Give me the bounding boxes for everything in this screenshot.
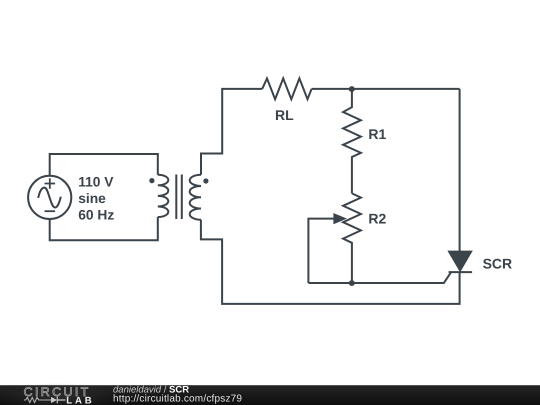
resistor RL (262, 78, 311, 99)
wire secondary top (201, 89, 262, 175)
svg-text:http://circuitlab.com/cfpsz79: http://circuitlab.com/cfpsz79 (113, 393, 242, 404)
resistor R1 (343, 89, 361, 193)
SCR thyristor (449, 251, 473, 272)
potentiometer R2 (343, 193, 361, 283)
wire primary bottom (50, 217, 158, 240)
logo diode (51, 397, 66, 403)
footer author line (113, 384, 189, 395)
svg-text:R1: R1 (368, 126, 386, 142)
svg-text:110 V: 110 V (78, 175, 114, 190)
wire top (312, 88, 460, 90)
footer bar (0, 383, 540, 405)
voltage source V1 (28, 176, 71, 219)
label V1 value: 110 V sine 60 Hz (78, 175, 114, 223)
logo resistor zigzag (24, 397, 51, 402)
phase dot secondary (203, 178, 208, 183)
logo CIRCUIT text (24, 385, 91, 399)
node junction top (349, 86, 355, 92)
phase dot primary (149, 178, 154, 183)
label R1 (368, 126, 386, 142)
svg-text:LAB: LAB (66, 396, 94, 405)
transformer T1 primary winding (158, 175, 169, 217)
svg-text:R2: R2 (368, 211, 386, 227)
transformer core (176, 175, 182, 220)
svg-text:SCR: SCR (483, 256, 513, 272)
footer url line (113, 393, 242, 404)
logo LAB text (66, 396, 94, 405)
wire gate (308, 272, 451, 283)
wire cathode and bottom return (201, 220, 460, 304)
wire primary top (50, 154, 158, 176)
label SCR (483, 256, 513, 272)
svg-text:60 Hz: 60 Hz (78, 208, 114, 223)
transformer T1 secondary winding (190, 175, 201, 220)
wire anode (459, 89, 461, 252)
label RL (275, 107, 294, 123)
svg-text:RL: RL (275, 107, 294, 123)
svg-text:sine: sine (78, 191, 106, 206)
label R2 (368, 211, 386, 227)
potentiometer R2 wiper arrow (308, 214, 345, 283)
node junction gate (349, 280, 355, 286)
